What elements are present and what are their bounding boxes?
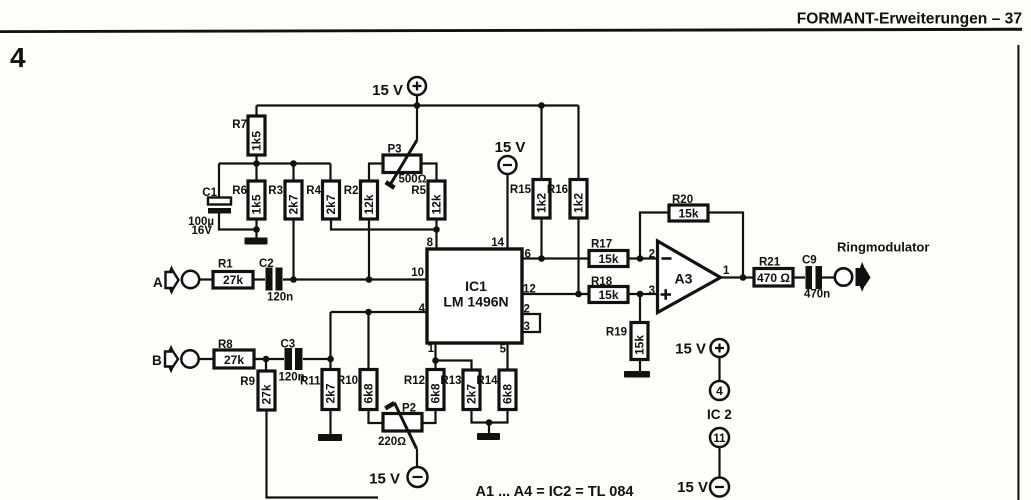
svg-text:11: 11 (713, 433, 726, 445)
svg-text:27k: 27k (260, 384, 274, 404)
svg-text:2k7: 2k7 (324, 383, 338, 403)
svg-text:P2: P2 (402, 403, 416, 415)
svg-text:IC 2: IC 2 (707, 407, 732, 422)
svg-text:C3: C3 (281, 339, 296, 351)
svg-text:IC1: IC1 (465, 278, 487, 294)
svg-text:27k: 27k (224, 353, 244, 367)
svg-text:A3: A3 (675, 271, 693, 287)
svg-text:FORMANT-Erweiterungen – 37: FORMANT-Erweiterungen – 37 (797, 11, 1022, 28)
svg-text:R13: R13 (440, 375, 461, 387)
svg-text:C9: C9 (802, 255, 817, 267)
svg-text:1: 1 (428, 343, 435, 355)
svg-text:R14: R14 (476, 375, 498, 387)
svg-text:10: 10 (411, 267, 424, 279)
svg-text:2k7: 2k7 (324, 194, 338, 214)
svg-text:R9: R9 (240, 376, 255, 388)
svg-text:R16: R16 (547, 184, 568, 196)
svg-text:6k8: 6k8 (501, 384, 515, 404)
svg-text:B: B (152, 353, 162, 368)
svg-text:15k: 15k (678, 207, 698, 221)
svg-text:12k: 12k (430, 194, 444, 214)
svg-text:P3: P3 (388, 144, 402, 156)
svg-text:4: 4 (716, 384, 723, 398)
svg-text:3: 3 (524, 321, 530, 333)
svg-text:R4: R4 (306, 185, 321, 197)
svg-text:15 V: 15 V (675, 341, 706, 358)
svg-text:5: 5 (500, 344, 507, 356)
svg-text:R19: R19 (606, 327, 627, 339)
svg-text:2: 2 (649, 249, 655, 261)
svg-text:4: 4 (10, 42, 26, 73)
svg-text:R3: R3 (268, 185, 283, 197)
svg-text:R7: R7 (232, 119, 247, 131)
svg-text:1k2: 1k2 (572, 193, 586, 213)
svg-text:500Ω: 500Ω (399, 174, 427, 186)
svg-text:12k: 12k (362, 194, 376, 214)
svg-text:R12: R12 (404, 375, 425, 387)
svg-text:8: 8 (427, 237, 434, 249)
svg-text:R21: R21 (759, 257, 781, 269)
svg-text:6: 6 (525, 249, 531, 261)
svg-text:15k: 15k (598, 288, 618, 302)
svg-text:15 V: 15 V (677, 479, 708, 496)
svg-text:1k5: 1k5 (250, 194, 264, 214)
svg-text:3: 3 (649, 285, 655, 297)
svg-text:R1: R1 (218, 259, 233, 271)
svg-text:15 V: 15 V (495, 139, 526, 156)
svg-text:120n: 120n (267, 292, 293, 304)
svg-text:R8: R8 (218, 339, 233, 351)
svg-text:16V: 16V (192, 225, 213, 237)
svg-text:15 V: 15 V (369, 471, 400, 488)
svg-text:R20: R20 (672, 194, 693, 206)
svg-text:A1 ... A4 = IC2 = TL 084: A1 ... A4 = IC2 = TL 084 (476, 484, 634, 500)
svg-text:470 Ω: 470 Ω (757, 271, 790, 285)
svg-text:2: 2 (524, 304, 530, 316)
svg-text:15k: 15k (598, 252, 618, 266)
svg-text:R15: R15 (510, 184, 532, 196)
svg-text:R18: R18 (591, 276, 613, 288)
svg-text:C2: C2 (259, 258, 274, 270)
svg-text:R6: R6 (232, 185, 247, 197)
svg-text:220Ω: 220Ω (378, 436, 406, 448)
svg-text:R2: R2 (344, 185, 359, 197)
svg-text:R10: R10 (337, 375, 358, 387)
svg-text:C1: C1 (202, 187, 217, 199)
svg-text:6k8: 6k8 (362, 383, 376, 403)
svg-text:15 V: 15 V (372, 82, 403, 99)
svg-text:2k7: 2k7 (287, 194, 301, 214)
svg-text:1k5: 1k5 (250, 131, 264, 151)
svg-text:Ringmodulator: Ringmodulator (837, 240, 929, 255)
svg-text:R17: R17 (591, 239, 612, 251)
svg-text:4: 4 (419, 303, 426, 315)
svg-text:12: 12 (523, 284, 536, 296)
svg-text:15k: 15k (633, 335, 647, 355)
svg-text:LM 1496N: LM 1496N (443, 294, 508, 310)
svg-text:14: 14 (491, 237, 504, 249)
svg-text:470n: 470n (804, 289, 830, 301)
svg-text:1: 1 (723, 265, 730, 277)
svg-text:R11: R11 (300, 376, 321, 388)
svg-text:27k: 27k (223, 273, 243, 287)
svg-text:R5: R5 (411, 185, 426, 197)
svg-text:A: A (153, 275, 163, 290)
